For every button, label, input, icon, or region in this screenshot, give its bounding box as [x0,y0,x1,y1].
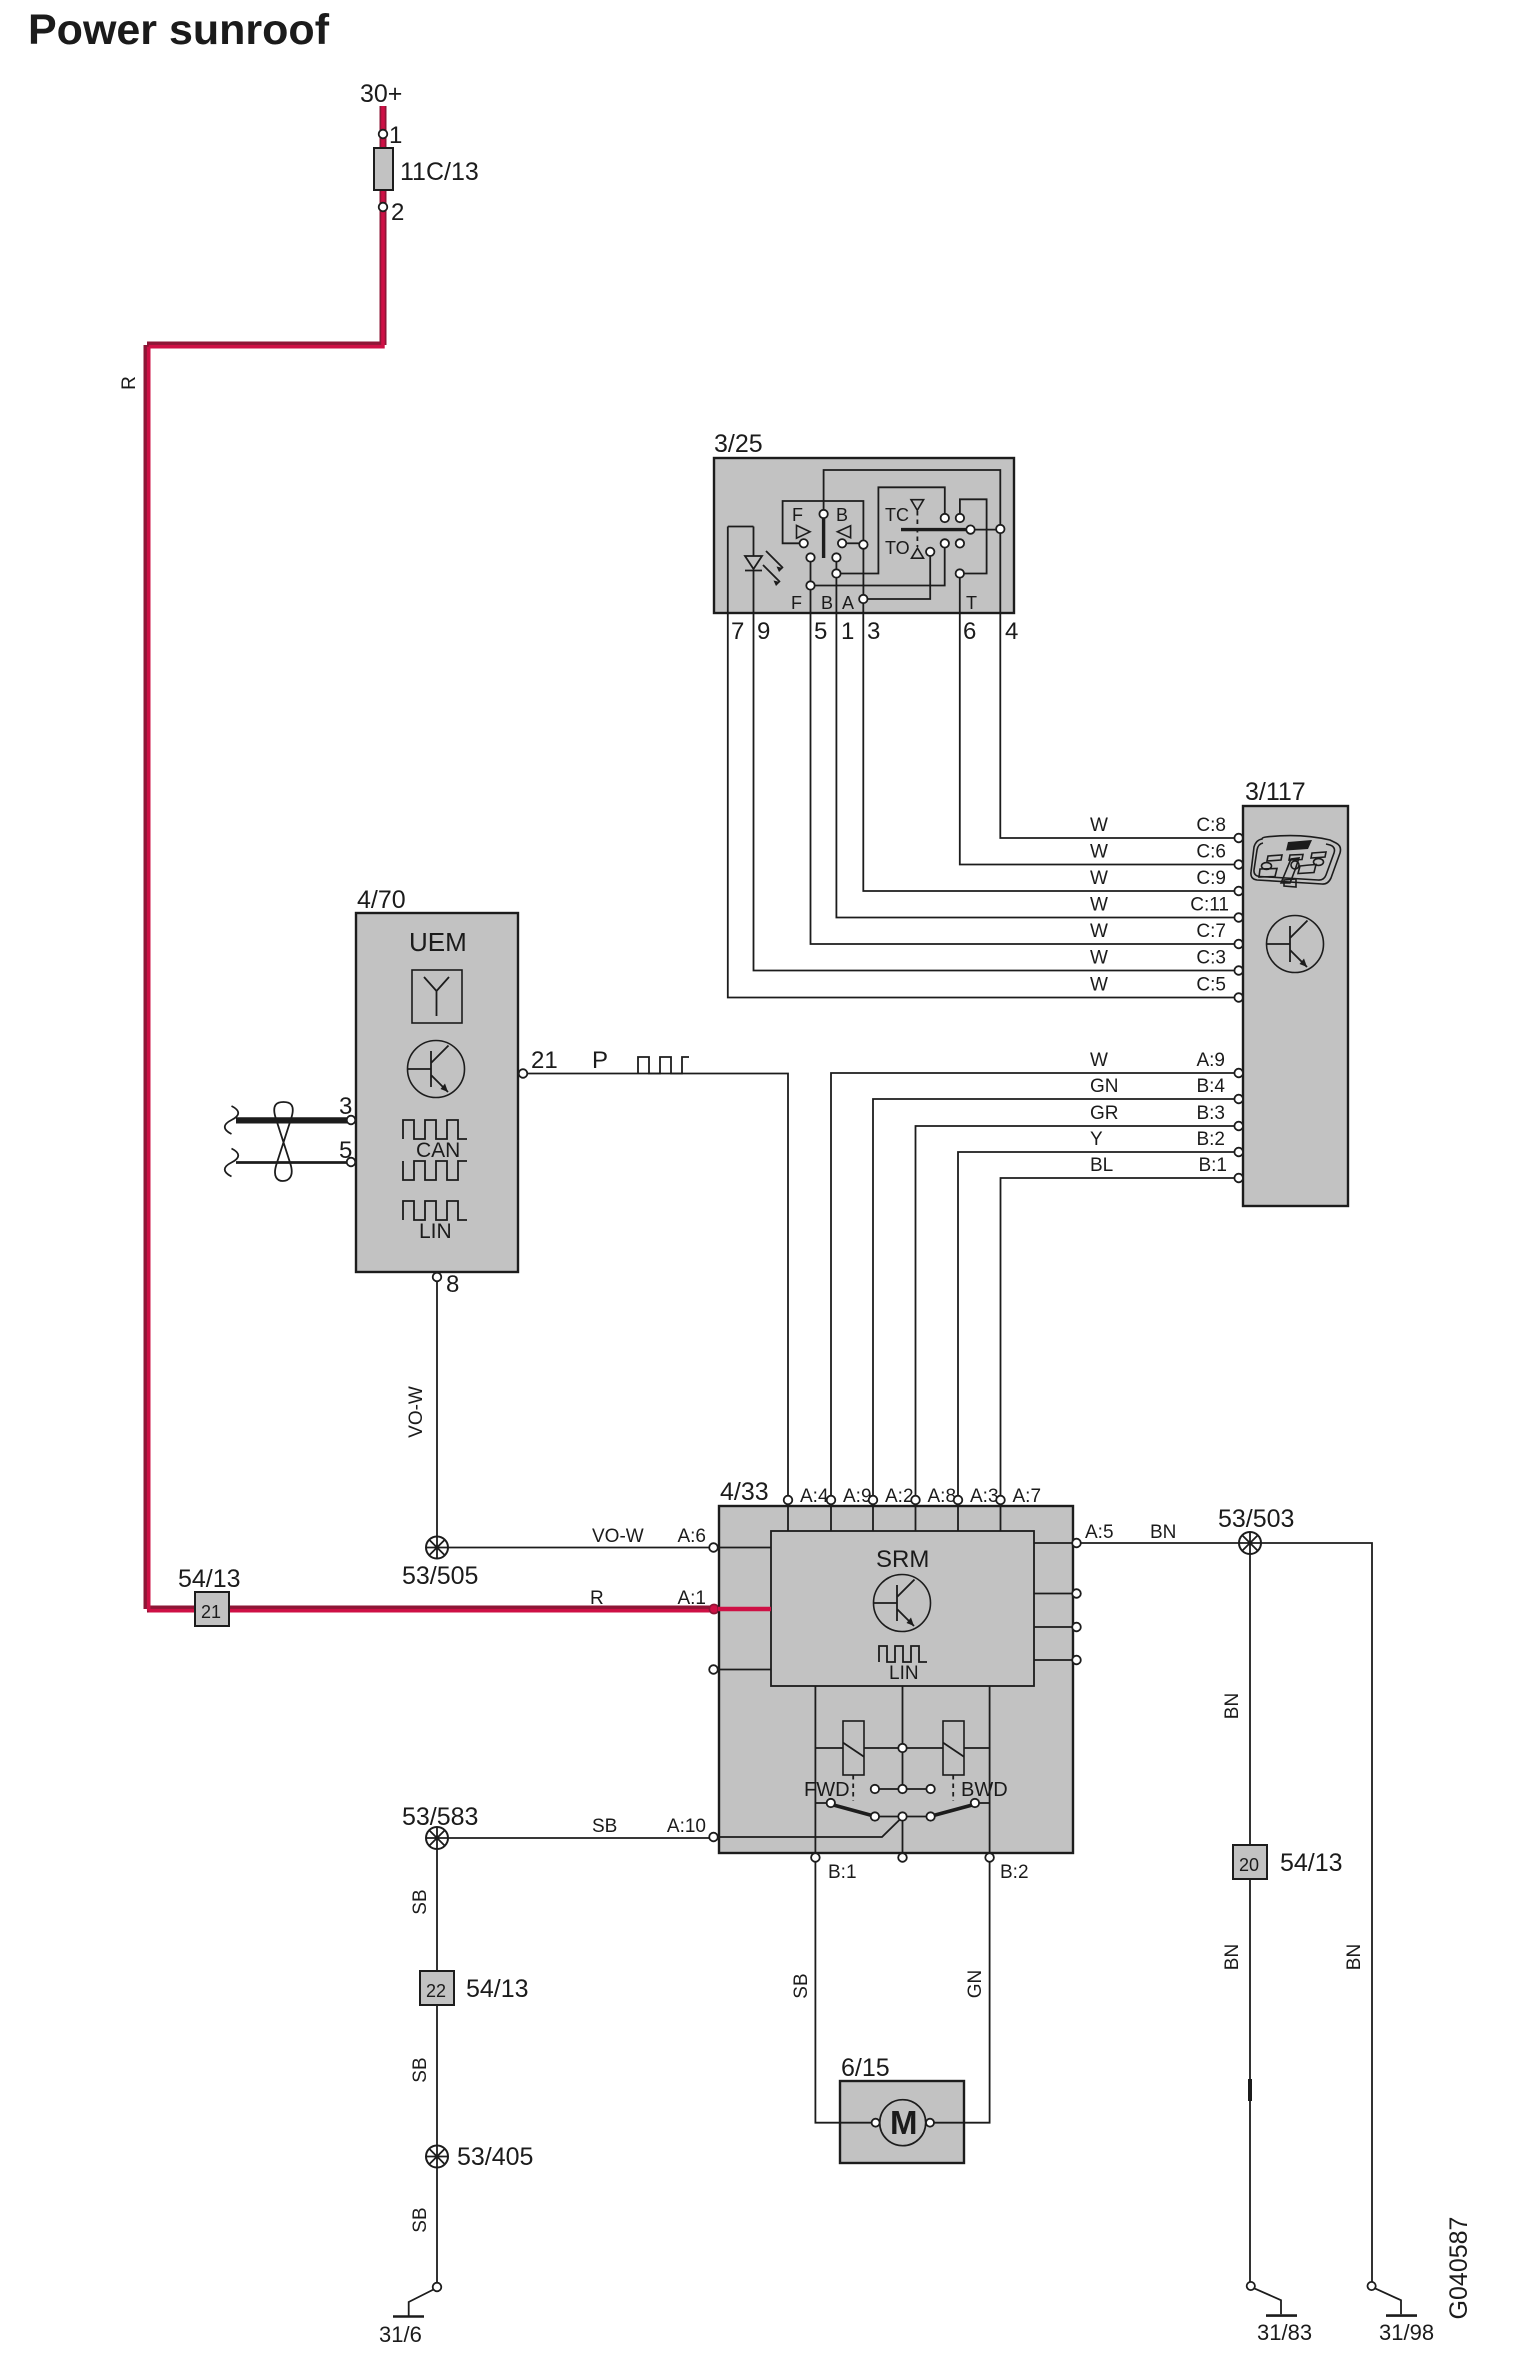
TO moving contact [926,548,934,556]
svg-text:A:4: A:4 [800,1486,829,1507]
svg-text:B:2: B:2 [1196,1129,1225,1150]
svg-text:Power sunroof: Power sunroof [28,6,330,54]
stub wires from top pins into inner box [788,1504,1001,1531]
wire BL SRM A:7 to 3/117 B:1 [1001,1178,1235,1495]
svg-text:6/15: 6/15 [841,2054,890,2082]
wire center column to switch [902,1752,904,1785]
svg-text:C:6: C:6 [1196,842,1226,863]
TC/TO actuator bar (thick) [901,528,967,531]
svg-text:4: 4 [1005,618,1018,645]
svg-text:C:8: C:8 [1196,815,1226,836]
relay feed columns [815,1686,989,1853]
svg-text:LIN: LIN [889,1663,919,1684]
svg-text:GN: GN [965,1970,986,1999]
svg-text:B:1: B:1 [828,1862,857,1883]
relay coil BWD [943,1721,964,1775]
svg-text:W: W [1090,948,1108,969]
triangle F direction [797,525,811,538]
dashed actuator link TC/TO [916,511,918,547]
svg-text:2: 2 [391,199,404,226]
pin 2 of fuse [379,203,388,212]
transistor symbol SRM [874,1575,931,1632]
wire B contact down [835,562,837,570]
pin 5 UEM [347,1158,356,1167]
control panel 3/117 box [1243,806,1348,1206]
svg-text:R: R [119,376,140,390]
svg-text:SB: SB [410,1889,431,1914]
wire SB from B:1 to motor [815,1862,867,2123]
svg-text:T: T [966,593,977,613]
wire B junction to pin1 [835,578,837,613]
switch blade BWD (thick) [934,1805,973,1816]
svg-text:SB: SB [592,1816,617,1837]
wire SB below splice [436,2167,438,2283]
svg-text:A:7: A:7 [1013,1486,1042,1507]
motor 6/15 box [840,2081,964,2163]
wire P from UEM to SRM A:4 [527,1074,788,1496]
svg-text:B:3: B:3 [1196,1103,1225,1124]
pivot contacts [827,1799,835,1807]
svg-text:4/33: 4/33 [720,1478,769,1506]
actuator bar F/B (thick) [822,519,825,559]
svg-text:53/583: 53/583 [402,1803,478,1831]
svg-text:30+: 30+ [360,80,402,108]
CAN waveform upper [403,1120,467,1139]
wire SB from splice 53/583 to A:10 [448,1837,710,1839]
pin A:1 circle (red) [709,1604,718,1613]
svg-text:W: W [1090,921,1108,942]
wire GN from B:2 to motor [934,1862,989,2123]
svg-text:31/98: 31/98 [1379,2320,1434,2345]
transistor symbol UEM [408,1041,465,1098]
switch 3/25 sunroof switch box [714,458,1014,613]
svg-text:A:6: A:6 [677,1526,706,1547]
wire W SRM A:9 to 3/117 A:9 [831,1073,1234,1495]
svg-text:C:7: C:7 [1196,921,1226,942]
svg-text:LIN: LIN [419,1220,452,1243]
right pin A:5 [1072,1539,1081,1548]
wire pin6 to C:6 [960,613,1235,865]
splice 53/505 [426,1537,448,1559]
junction box 54/13 pos 20 [1233,1845,1267,1879]
splice 53/583 [426,1827,448,1849]
svg-text:VO-W: VO-W [592,1526,644,1547]
wire pin7 internal column [728,527,754,614]
contact post F/B [819,510,827,518]
svg-text:20: 20 [1239,1855,1259,1875]
svg-text:SB: SB [410,2207,431,2232]
triangle TC [911,500,924,511]
wire bar end to pin4 column [975,529,996,531]
P pulse symbol [638,1057,689,1074]
svg-text:3: 3 [339,1093,352,1120]
svg-text:M: M [890,2104,918,2141]
svg-text:B:2: B:2 [1000,1862,1029,1883]
middle contact row [871,1785,879,1793]
splice 53/405 [426,2146,448,2168]
pin 21 UEM [519,1069,528,1078]
junction circle center relay row [898,1744,906,1752]
wire F junction to TO contact riser [815,548,945,586]
wire B contact to TC riser [841,487,945,573]
pin A:10 and wire to switch [709,1833,718,1842]
twisted pair CAN bus wires [236,1117,347,1123]
wire pin4 to C:8 [1000,613,1234,838]
svg-text:A:9: A:9 [843,1486,872,1507]
svg-text:A:9: A:9 [1196,1050,1225,1071]
svg-text:BWD: BWD [961,1779,1008,1801]
left unlabeled pin [709,1665,718,1674]
wire relay row horizontal [815,1747,989,1749]
svg-text:G040587: G040587 [1445,2217,1473,2320]
svg-text:F: F [791,593,802,613]
wire GN SRM A:2 to 3/117 B:4 [873,1099,1234,1495]
svg-text:BL: BL [1090,1155,1113,1176]
LED arrows [763,551,783,582]
svg-text:1: 1 [841,618,854,645]
svg-text:A:8: A:8 [928,1486,957,1507]
ground 31/83 [1247,2282,1297,2316]
svg-text:8: 8 [446,1271,459,1298]
svg-text:F: F [792,505,803,525]
svg-text:B: B [836,505,848,525]
wire BN A:5 to splice and right branch [1081,1543,1372,2282]
ground 31/6 [393,2283,441,2317]
wire VO-W vertical [436,1281,438,1537]
svg-text:A:2: A:2 [885,1486,914,1507]
svg-text:GR: GR [1090,1103,1119,1124]
CAN waveform lower [403,1161,467,1180]
contact circles under triangles [800,539,808,547]
svg-text:W: W [1090,868,1108,889]
svg-text:BN: BN [1150,1522,1176,1543]
junction box 54/13 pos 22 [420,1971,454,2005]
svg-text:3/117: 3/117 [1245,778,1306,806]
wire pin5 to C:7 [811,613,1235,944]
svg-text:SRM: SRM [876,1546,929,1573]
wire center lower contact to bottom [902,1821,904,1853]
svg-text:TO: TO [885,538,910,558]
svg-text:W: W [1090,895,1108,916]
left pin A:1 red stub [718,1607,771,1612]
svg-text:C:9: C:9 [1196,868,1226,889]
svg-text:7: 7 [731,618,744,645]
wire inner bracket F/B [783,501,864,543]
svg-text:SB: SB [791,1973,812,1998]
wire A to TO moving contact [868,556,931,599]
wire R main feed (red) [147,106,771,1611]
svg-text:21: 21 [531,1047,558,1074]
motor symbol [880,2100,926,2146]
svg-text:31/6: 31/6 [379,2322,422,2347]
svg-text:W: W [1090,975,1108,996]
pin 3 UEM [347,1116,356,1125]
wire top bracket to F/B post and pin4 column [824,470,1001,613]
svg-text:1: 1 [389,122,402,149]
wire pin9 to C:3 [754,613,1235,971]
svg-text:VO-W: VO-W [406,1386,427,1438]
svg-text:P: P [592,1047,608,1074]
wire GR SRM A:8 to 3/117 B:3 [916,1126,1235,1495]
svg-text:BN: BN [1222,1693,1243,1719]
LIN waveform SRM [879,1646,927,1662]
svg-text:5: 5 [339,1137,352,1164]
left pin A:6 [709,1543,718,1552]
wire junction to pin5 [810,590,812,613]
fuse 11C/13 [374,148,393,190]
svg-text:6: 6 [963,618,976,645]
wire SB splice to 22 box [436,1849,438,1972]
svg-text:3/25: 3/25 [714,430,763,458]
svg-text:9: 9 [757,618,770,645]
svg-text:11C/13: 11C/13 [400,158,479,186]
svg-text:FWD: FWD [804,1779,850,1801]
junction F / pin5 [806,581,814,589]
svg-text:53/505: 53/505 [402,1562,478,1590]
wire T bracket [960,499,987,573]
wire A to pin3 [862,603,864,613]
junction box 54/13 pos 21 [195,1592,229,1626]
wire T to pin6 [959,578,961,613]
bar end contact [966,525,974,533]
svg-text:53/503: 53/503 [1218,1505,1294,1533]
svg-text:SB: SB [410,2057,431,2082]
svg-text:Y: Y [1090,1129,1103,1150]
svg-text:5: 5 [814,618,827,645]
pin 8 UEM [433,1273,442,1282]
console icon [1251,836,1341,887]
SRM inner module box [771,1531,1034,1686]
svg-text:BN: BN [1222,1944,1243,1970]
svg-text:54/13: 54/13 [1280,1849,1343,1877]
svg-text:R: R [590,1588,604,1609]
wire BN left branch down [1249,1554,1251,1846]
contacts above bar [941,514,949,522]
svg-text:TC: TC [885,505,909,525]
triangle B direction [837,526,850,538]
wire VO-W to SRM A:6 [448,1547,710,1549]
svg-text:A:1: A:1 [677,1588,706,1609]
svg-text:W: W [1090,815,1108,836]
B stationary contact [832,553,840,561]
wire pin1 to C:11 [836,613,1234,918]
antenna symbol [412,970,462,1023]
F stationary contact [806,553,814,561]
wire SB below 22 box [436,2005,438,2146]
svg-text:B:1: B:1 [1198,1155,1227,1176]
transistor symbol 3/117 [1267,916,1324,973]
svg-text:54/13: 54/13 [178,1565,241,1593]
wire F contact to junction [810,562,812,582]
contacts below bar [941,539,949,547]
UEM 4/70 box [356,913,518,1272]
bottom pins B:1 center B:2 [811,1853,820,1862]
svg-text:UEM: UEM [409,927,467,957]
pin 1 of fuse [379,130,388,139]
relay coil FWD [843,1721,864,1775]
contact T [956,569,964,577]
svg-text:B: B [821,593,833,613]
LED illumination diode [745,527,762,614]
ground 31/98 [1368,2282,1418,2316]
svg-text:A: A [842,593,854,613]
wire pin7 to C:5 [728,613,1235,998]
svg-text:C:11: C:11 [1190,895,1229,916]
svg-text:31/83: 31/83 [1257,2320,1312,2345]
SRM 4/33 outer box [719,1506,1073,1853]
dashed actuator links [852,1775,854,1801]
switch blade FWD (thick) [834,1805,873,1816]
wire bracket right down to A [862,549,864,595]
svg-text:4/70: 4/70 [357,886,406,914]
wire pin3 to C:9 [863,613,1234,891]
svg-text:CAN: CAN [416,1139,460,1162]
wire between B contact and bracket [846,542,859,544]
svg-text:53/405: 53/405 [457,2143,533,2171]
wire BN below 20 box [1249,1879,1251,2282]
wire splice mark on BN [1248,2079,1252,2101]
svg-text:C:3: C:3 [1196,948,1226,969]
svg-text:GN: GN [1090,1076,1119,1097]
svg-text:A:5: A:5 [1085,1522,1114,1543]
lower contact row [871,1812,879,1820]
svg-text:BN: BN [1344,1944,1365,1970]
top pins of SRM [784,1496,793,1505]
svg-text:3: 3 [867,618,880,645]
svg-text:A:10: A:10 [667,1816,706,1837]
svg-text:W: W [1090,1050,1108,1071]
svg-text:22: 22 [426,1981,446,2001]
svg-text:54/13: 54/13 [466,1975,529,2003]
splice 53/503 [1239,1532,1261,1554]
svg-text:B:4: B:4 [1196,1076,1225,1097]
contact A [859,595,867,603]
svg-text:W: W [1090,842,1108,863]
right unlabeled pins [1072,1589,1081,1598]
svg-text:C:5: C:5 [1196,975,1226,996]
svg-text:21: 21 [201,1602,221,1622]
triangle TO [912,548,924,558]
wire Y SRM A:3 to 3/117 B:2 [958,1152,1234,1495]
LIN waveform [403,1201,467,1220]
svg-text:A:3: A:3 [970,1486,999,1507]
